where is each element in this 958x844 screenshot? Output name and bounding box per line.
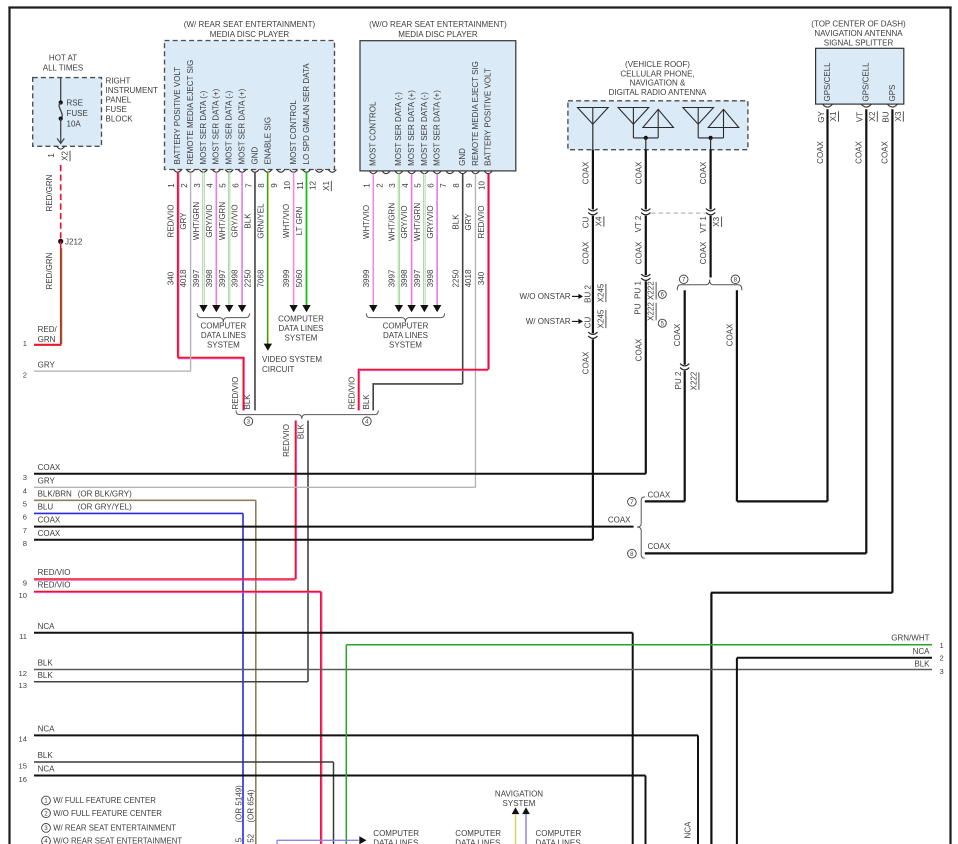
svg-text:5060: 5060: [295, 269, 304, 287]
legend of circled options: [42, 796, 183, 844]
wire BLK 2250 from box1 pin7 to bracket (3): [243, 172, 255, 410]
svg-text:3998: 3998: [400, 269, 409, 287]
svg-text:NAVIGATION ANTENNA: NAVIGATION ANTENNA: [814, 29, 903, 38]
connector X2 of fuse block: [47, 146, 70, 161]
wire GRY 4018 from box2 pin9 to circuit 4: [474, 174, 476, 488]
bracket splitting antenna 3 coax into branches (7) and (8): [677, 275, 742, 290]
svg-text:HOT AT: HOT AT: [49, 54, 77, 63]
svg-text:9: 9: [465, 183, 474, 188]
svg-text:X222: X222: [689, 371, 698, 390]
svg-text:WHT/VIO: WHT/VIO: [362, 205, 371, 239]
fuse block: right instrument panel fuse block: [33, 54, 158, 147]
svg-text:4: 4: [206, 183, 215, 188]
svg-text:X245: X245: [596, 283, 605, 302]
svg-text:GRY/VIO: GRY/VIO: [426, 205, 435, 238]
svg-text:NCA: NCA: [913, 647, 931, 656]
svg-text:CU: CU: [583, 317, 592, 329]
svg-text:PANEL: PANEL: [106, 96, 132, 105]
svg-text:7: 7: [682, 277, 686, 284]
svg-text:X1: X1: [322, 181, 331, 191]
svg-text:9: 9: [270, 183, 279, 188]
svg-text:BLK: BLK: [914, 659, 930, 668]
circuit 14 NCA wire: [19, 725, 698, 844]
svg-text:COAX: COAX: [634, 338, 643, 361]
svg-text:(OR BLK/GRY): (OR BLK/GRY): [78, 489, 132, 498]
antenna element pair 3: [683, 108, 739, 150]
svg-text:NCA: NCA: [684, 821, 693, 839]
svg-text:(TOP CENTER OF DASH): (TOP CENTER OF DASH): [811, 20, 906, 29]
svg-text:BLK: BLK: [244, 213, 253, 229]
coax wire from antenna 1 to connector X4: [581, 150, 593, 210]
svg-text:X2: X2: [868, 111, 877, 121]
brace splitting circuit 7 COAX into branches (7) and (8): [628, 497, 645, 558]
svg-text:WHT/VIO: WHT/VIO: [282, 204, 291, 238]
svg-text:NAVIGATION: NAVIGATION: [495, 790, 543, 799]
svg-text:BU: BU: [882, 111, 891, 122]
svg-text:4018: 4018: [464, 269, 473, 287]
svg-text:GPS/CELL: GPS/CELL: [823, 62, 832, 102]
cellular phone, navigation & digital radio antenna (vehicle roof): [568, 60, 748, 150]
svg-text:MOST SER DATA (-): MOST SER DATA (-): [225, 90, 234, 164]
svg-text:RED/VIO: RED/VIO: [477, 206, 486, 239]
svg-text:NCA: NCA: [38, 622, 56, 631]
svg-text:BLK: BLK: [38, 671, 54, 680]
inline connector CU / X4: [581, 209, 604, 229]
svg-text:16: 16: [19, 775, 27, 784]
svg-text:MOST SER DATA (+): MOST SER DATA (+): [407, 90, 416, 166]
antenna element 1: [578, 108, 609, 150]
svg-text:3: 3: [247, 419, 251, 426]
svg-text:COAX: COAX: [699, 161, 708, 184]
svg-text:4: 4: [44, 838, 48, 844]
wire joining branch (8) to splitter X1: [737, 500, 828, 502]
svg-text:W/O REAR SEAT ENTERTAINMENT: W/O REAR SEAT ENTERTAINMENT: [53, 837, 182, 844]
svg-text:10A: 10A: [67, 120, 82, 129]
svg-text:RED/VIO: RED/VIO: [347, 377, 356, 410]
svg-text:NCA: NCA: [38, 765, 56, 774]
svg-text:3998: 3998: [205, 269, 214, 287]
svg-text:MEDIA DISC PLAYER: MEDIA DISC PLAYER: [398, 30, 478, 39]
svg-text:COAX: COAX: [699, 241, 708, 264]
svg-text:WHT/GRN: WHT/GRN: [218, 202, 227, 240]
svg-text:RSE: RSE: [67, 98, 83, 107]
svg-text:2: 2: [44, 810, 48, 817]
svg-text:GRY: GRY: [464, 213, 473, 231]
svg-text:6: 6: [23, 513, 27, 522]
svg-text:GPS/CELL: GPS/CELL: [862, 62, 871, 102]
svg-text:2: 2: [375, 183, 384, 188]
fuse RSE 10A: [57, 78, 88, 144]
svg-text:7: 7: [244, 183, 253, 188]
svg-text:COMPUTER: COMPUTER: [201, 322, 247, 331]
svg-text:BLK: BLK: [362, 394, 371, 410]
svg-text:FUSE: FUSE: [106, 105, 127, 114]
svg-text:GRY/VIO: GRY/VIO: [400, 205, 409, 238]
svg-text:DATA LINES: DATA LINES: [278, 324, 323, 333]
coax wire branch (8) from brace to splitter X2: [645, 542, 867, 554]
svg-text:W/O ONSTAR: W/O ONSTAR: [520, 292, 571, 301]
svg-text:5: 5: [235, 837, 244, 842]
circuit 4 GRY wire: [23, 476, 476, 495]
media disc player (w/o rear seat entertainment) U2: [360, 20, 516, 190]
svg-text:COMPUTER: COMPUTER: [373, 829, 419, 838]
svg-text:3997: 3997: [413, 269, 422, 287]
svg-text:BLK/BRN: BLK/BRN: [38, 489, 72, 498]
wires from box2 pins 1,3-6 to computer data lines arrows: [369, 174, 441, 313]
svg-text:RED/VIO: RED/VIO: [166, 205, 175, 238]
circuit 10 RED/VIO wire: [19, 581, 322, 844]
svg-text:DATA LINES: DATA LINES: [455, 838, 500, 844]
svg-text:BLK: BLK: [296, 423, 305, 439]
wire RED/GRN from J212 to circuit 1: [34, 241, 62, 345]
svg-text:5: 5: [23, 500, 27, 509]
svg-text:COAX: COAX: [581, 351, 590, 374]
svg-text:COMPUTER: COMPUTER: [278, 314, 324, 323]
svg-text:10: 10: [283, 181, 292, 190]
svg-text:COAX: COAX: [648, 491, 671, 500]
svg-text:REMOTE MEDIA EJECT SIG: REMOTE MEDIA EJECT SIG: [471, 61, 480, 166]
svg-text:GY: GY: [817, 111, 826, 123]
coax wire from antenna 3 to connector X3: [699, 150, 711, 210]
wires WHT/VIO + LT GRN from box1 pins 10,11 to computer data lines: [278, 172, 324, 342]
svg-text:14: 14: [19, 735, 27, 744]
svg-text:3999: 3999: [282, 269, 291, 287]
antenna element pair 2: [618, 108, 673, 150]
svg-text:1: 1: [23, 339, 27, 348]
svg-text:WHT/GRN: WHT/GRN: [413, 203, 422, 241]
svg-text:COMPUTER: COMPUTER: [455, 829, 501, 838]
svg-text:8: 8: [257, 183, 266, 188]
svg-text:PU: PU: [633, 303, 642, 314]
svg-text:COAX: COAX: [38, 463, 61, 472]
svg-text:4: 4: [23, 487, 27, 496]
svg-text:3998: 3998: [231, 269, 240, 287]
svg-text:3998: 3998: [426, 269, 435, 287]
circuit 2 GRY wire: [23, 360, 191, 379]
svg-text:W/ REAR SEAT ENTERTAINMENT: W/ REAR SEAT ENTERTAINMENT: [53, 824, 176, 833]
svg-text:3: 3: [23, 473, 27, 482]
svg-text:8: 8: [452, 183, 461, 188]
svg-text:2: 2: [23, 371, 27, 380]
svg-text:3: 3: [388, 183, 397, 188]
coax from X3 down to split bracket: [699, 216, 711, 278]
svg-text:GRY: GRY: [179, 212, 188, 230]
svg-text:BATTERY POSITIVE VOLT: BATTERY POSITIVE VOLT: [484, 68, 493, 166]
svg-text:VT 2: VT 2: [634, 215, 643, 232]
svg-text:3: 3: [193, 183, 202, 188]
svg-text:8: 8: [630, 551, 634, 558]
svg-text:NAVIGATION &: NAVIGATION &: [630, 79, 686, 88]
svg-text:MEDIA DISC PLAYER: MEDIA DISC PLAYER: [210, 30, 290, 39]
inline connector PU 1 / X222 (6), PU / X222 (5): [633, 274, 666, 327]
svg-text:7: 7: [630, 499, 634, 506]
svg-text:X4: X4: [594, 216, 603, 226]
svg-text:MOST SER DATA (-): MOST SER DATA (-): [199, 90, 208, 164]
svg-text:COAX: COAX: [38, 516, 61, 525]
svg-text:SYSTEM: SYSTEM: [389, 341, 422, 350]
svg-text:RED/GRN: RED/GRN: [45, 174, 54, 211]
svg-text:3997: 3997: [218, 269, 227, 287]
navigation system destination arrows: [495, 790, 543, 844]
dashed link between VT 2 and VT 1 connectors: [651, 212, 705, 214]
svg-text:7068: 7068: [256, 269, 265, 287]
svg-text:NCA: NCA: [38, 725, 56, 734]
svg-text:9: 9: [23, 578, 27, 587]
svg-text:GRY: GRY: [38, 476, 56, 485]
svg-text:RED/VIO: RED/VIO: [282, 424, 291, 457]
svg-text:(OR 5149): (OR 5149): [235, 785, 244, 823]
inline connector PU 2 / X222: [674, 364, 699, 391]
svg-text:RED/VIO: RED/VIO: [38, 581, 71, 590]
svg-text:BATTERY POSITIVE VOLT: BATTERY POSITIVE VOLT: [173, 67, 182, 165]
svg-text:MOST CONTROL: MOST CONTROL: [289, 100, 298, 165]
svg-text:LT GRN: LT GRN: [295, 206, 304, 235]
box1 pin wire colour and circuit number labels: [166, 202, 304, 288]
svg-text:X3: X3: [894, 111, 903, 121]
svg-text:X222: X222: [647, 281, 656, 300]
circuit 16 NCA wire: [19, 765, 646, 844]
svg-text:COAX: COAX: [581, 161, 590, 184]
splitter pin X3 BU wire: [881, 109, 904, 592]
svg-text:WHT/GRN: WHT/GRN: [387, 203, 396, 241]
svg-text:4: 4: [401, 183, 410, 188]
svg-text:COAX: COAX: [581, 241, 590, 264]
svg-text:8: 8: [734, 277, 738, 284]
circuit 1 RED/GRN label: [23, 325, 58, 348]
svg-text:CIRCUIT: CIRCUIT: [262, 365, 295, 374]
svg-text:DATA LINES: DATA LINES: [383, 331, 428, 340]
svg-text:COAX: COAX: [634, 241, 643, 264]
svg-text:X1: X1: [829, 111, 838, 121]
connector X245 labels (w/o onstar: BU 2, w/ onstar: CU): [520, 283, 606, 338]
wire GRN/YEL 7068 from box1 pin8 to video system circuit: [262, 172, 322, 374]
svg-text:BLU: BLU: [38, 503, 54, 512]
inline connector VT 1 / X3: [699, 209, 722, 233]
svg-text:2250: 2250: [451, 269, 460, 287]
svg-text:X245: X245: [596, 309, 605, 328]
svg-text:MOST SER DATA (+): MOST SER DATA (+): [238, 88, 247, 164]
splice J212: [58, 238, 83, 247]
svg-text:BLK: BLK: [38, 751, 54, 760]
coax branch (7) from PU 2 down to junction with circuit 7: [684, 371, 686, 502]
svg-text:SYSTEM: SYSTEM: [285, 333, 318, 342]
splitter pin X1 GY wire: [816, 109, 839, 501]
svg-text:RIGHT: RIGHT: [106, 77, 131, 86]
svg-text:6: 6: [426, 183, 435, 188]
svg-text:1: 1: [940, 641, 944, 650]
coax branch (8) down to X1 routing: [725, 290, 737, 501]
svg-text:VT: VT: [856, 112, 865, 122]
svg-text:12: 12: [19, 669, 27, 678]
wire RED/VIO 340 from box1 pin1 to bracket (3): [178, 172, 245, 410]
svg-text:BLK: BLK: [451, 214, 460, 230]
svg-text:GRN: GRN: [38, 335, 56, 344]
svg-text:W/ FULL FEATURE CENTER: W/ FULL FEATURE CENTER: [53, 796, 156, 805]
svg-text:(OR GRY/YEL): (OR GRY/YEL): [78, 503, 132, 512]
svg-text:BU 2: BU 2: [583, 285, 592, 303]
svg-text:5: 5: [219, 183, 228, 188]
wire BLK from bracket down to circuit 13: [296, 421, 308, 682]
svg-text:(VEHICLE ROOF): (VEHICLE ROOF): [625, 60, 690, 69]
svg-text:REMOTE MEDIA EJECT SIG: REMOTE MEDIA EJECT SIG: [186, 60, 195, 165]
svg-text:12: 12: [309, 181, 318, 190]
svg-text:13: 13: [19, 681, 27, 690]
right circuit 2 NCA wire: [737, 647, 944, 844]
computer data lines label 1 with arrow wire: [277, 829, 419, 844]
svg-text:8: 8: [23, 539, 27, 548]
wire RED/GRN from fuse block to J212 (dashed): [45, 165, 61, 240]
coax wire branch (7) from brace to PU 2 branch: [645, 491, 685, 502]
svg-text:DIGITAL RADIO ANTENNA: DIGITAL RADIO ANTENNA: [609, 88, 707, 97]
computer data lines system label (box1 MOST group): [197, 313, 249, 349]
svg-text:5: 5: [414, 183, 423, 188]
svg-text:BLK: BLK: [243, 394, 252, 410]
svg-text:COAX: COAX: [725, 323, 734, 346]
svg-text:PU 2: PU 2: [674, 371, 683, 389]
circuit 6 BLU wire: [23, 503, 243, 844]
svg-text:J212: J212: [65, 238, 83, 247]
svg-text:COMPUTER: COMPUTER: [536, 829, 582, 838]
svg-text:(W/O REAR SEAT ENTERTAINMENT): (W/O REAR SEAT ENTERTAINMENT): [369, 20, 507, 29]
svg-text:WHT/GRN: WHT/GRN: [192, 202, 201, 240]
svg-text:COMPUTER: COMPUTER: [383, 322, 429, 331]
svg-text:GND: GND: [250, 147, 259, 165]
svg-text:2: 2: [940, 654, 944, 663]
circuit 8 COAX wire: [23, 529, 593, 548]
svg-text:52: 52: [247, 833, 256, 842]
svg-text:COAX: COAX: [816, 141, 825, 164]
svg-text:COAX: COAX: [855, 141, 864, 164]
svg-text:10: 10: [19, 591, 27, 600]
coax wire from antenna 2 to connector VT 2: [634, 150, 646, 210]
svg-text:RED/: RED/: [38, 325, 58, 334]
svg-text:X2: X2: [61, 151, 70, 161]
svg-text:CU: CU: [581, 217, 590, 229]
circuit 7 COAX wire: [23, 516, 634, 535]
circuit number labels for BLU and BLK/BRN wires: [235, 785, 256, 843]
circuit 3 COAX wire: [23, 463, 646, 482]
svg-text:11: 11: [296, 181, 305, 190]
svg-text:1: 1: [167, 183, 176, 188]
svg-text:1: 1: [363, 183, 372, 188]
right circuit 1 GRN/WHT wire: [346, 633, 943, 844]
svg-text:LO SPD GMLAN SER DATA: LO SPD GMLAN SER DATA: [302, 63, 311, 165]
svg-text:(W/ REAR SEAT ENTERTAINMENT): (W/ REAR SEAT ENTERTAINMENT): [184, 20, 316, 29]
wire from splitter X3 down-left to bottom of page: [711, 593, 893, 844]
svg-text:DATA LINES: DATA LINES: [373, 838, 418, 844]
svg-text:MOST SER DATA (+): MOST SER DATA (+): [212, 88, 221, 164]
svg-text:3: 3: [44, 825, 48, 832]
svg-text:3: 3: [940, 667, 944, 676]
wires MOST SER DATA from box1 pins 3-6 to computer data lines arrows: [199, 172, 246, 312]
svg-text:COAX: COAX: [881, 141, 890, 164]
circuit 15 BLK wire: [19, 751, 334, 844]
svg-text:ALL TIMES: ALL TIMES: [43, 64, 83, 73]
circuit 13 BLK wire: [19, 671, 308, 690]
coax from VT 2 to connector X222: [634, 216, 646, 276]
svg-text:RED/VIO: RED/VIO: [231, 377, 240, 410]
svg-text:COAX: COAX: [673, 323, 682, 346]
svg-text:GRN/WHT: GRN/WHT: [891, 633, 929, 642]
coax branch (7) down to connector PU 2: [673, 290, 685, 364]
bracket merging RED/VIO+BLK pairs, options (3) and (4): [236, 410, 378, 425]
svg-text:DATA LINES: DATA LINES: [536, 838, 581, 844]
svg-text:SYSTEM: SYSTEM: [207, 341, 240, 350]
svg-text:BLK: BLK: [38, 659, 54, 668]
svg-text:DATA LINES: DATA LINES: [201, 331, 246, 340]
computer data lines label 3: [536, 829, 582, 844]
svg-text:INSTRUMENT: INSTRUMENT: [106, 86, 159, 95]
circuit 5 BLK/BRN wire: [23, 489, 256, 844]
svg-text:MOST SER DATA (+): MOST SER DATA (+): [433, 90, 442, 166]
circuit 12 BLK wire (continues to right circuit 3): [19, 659, 932, 678]
svg-text:COAX: COAX: [634, 161, 643, 184]
wire RED/VIO 340 from box2 pin10 to bracket (4): [347, 174, 489, 411]
svg-text:(OR 654): (OR 654): [247, 789, 256, 822]
svg-text:11: 11: [19, 632, 27, 641]
svg-text:VIDEO SYSTEM: VIDEO SYSTEM: [262, 355, 322, 364]
svg-text:GPS: GPS: [888, 85, 897, 102]
svg-text:GRN/YEL: GRN/YEL: [256, 203, 265, 239]
svg-text:COAX: COAX: [38, 529, 61, 538]
computer data lines system label (box2 group): [366, 313, 444, 349]
svg-text:7: 7: [23, 526, 27, 535]
svg-text:FUSE: FUSE: [67, 109, 88, 118]
box2 pin wire colour and circuit number labels: [362, 203, 486, 288]
svg-text:340: 340: [166, 271, 175, 285]
svg-text:2250: 2250: [244, 269, 253, 287]
svg-text:CELLULAR PHONE,: CELLULAR PHONE,: [620, 69, 694, 78]
svg-text:2: 2: [180, 183, 189, 188]
media disc player (w/ rear seat entertainment) U1: [165, 20, 337, 190]
wire BLK 2250 from box2 pin8 to bracket (4): [362, 174, 463, 411]
svg-text:COAX: COAX: [608, 515, 631, 524]
svg-text:W/ ONSTAR: W/ ONSTAR: [526, 317, 571, 326]
wire RED/VIO from bracket down to circuit 9: [282, 421, 297, 580]
svg-text:VT 1: VT 1: [699, 216, 708, 233]
svg-text:MOST SER DATA (-): MOST SER DATA (-): [394, 92, 403, 166]
svg-text:GRY/VIO: GRY/VIO: [205, 204, 214, 237]
svg-text:RED/GRN: RED/GRN: [45, 252, 54, 289]
coax from X4 to connector X245: [581, 216, 593, 334]
svg-text:4018: 4018: [179, 269, 188, 287]
svg-text:15: 15: [19, 761, 27, 770]
svg-text:SIGNAL SPLITTER: SIGNAL SPLITTER: [824, 39, 894, 48]
inline connector VT 2: [634, 209, 650, 233]
svg-text:X3: X3: [712, 216, 721, 226]
coax from X222 down to circuit 3: [634, 281, 646, 474]
navigation antenna signal splitter (top center of dash) U3: [811, 20, 906, 108]
svg-text:X222: X222: [647, 302, 656, 321]
svg-text:GRY/VIO: GRY/VIO: [231, 204, 240, 237]
svg-text:MOST CONTROL: MOST CONTROL: [369, 101, 378, 166]
svg-text:GRY: GRY: [38, 360, 56, 369]
circuit 11 NCA wire: [19, 622, 633, 844]
computer data lines label 2: [455, 829, 501, 844]
svg-text:1: 1: [47, 153, 56, 158]
svg-text:GND: GND: [458, 148, 467, 166]
svg-text:10: 10: [478, 181, 487, 190]
svg-text:3999: 3999: [362, 269, 371, 287]
svg-text:PU 1: PU 1: [633, 281, 642, 299]
circuit 9 RED/VIO wire: [23, 568, 296, 587]
svg-text:1: 1: [44, 798, 48, 805]
svg-text:7: 7: [439, 183, 448, 188]
svg-text:BLOCK: BLOCK: [106, 115, 134, 124]
svg-text:COAX: COAX: [648, 542, 671, 551]
right circuit 3 BLK label: [914, 659, 943, 676]
splitter pin X2 VT wire: [855, 109, 878, 553]
